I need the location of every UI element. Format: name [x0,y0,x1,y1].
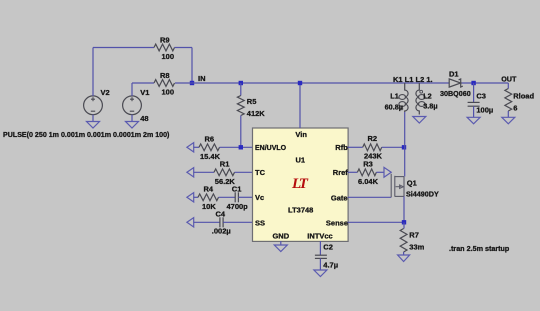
svg-text:V2: V2 [101,88,110,97]
wire [194,196,198,198]
wire [191,48,193,84]
wire [382,146,404,148]
ground flag EN row [187,143,194,152]
wire [473,83,475,102]
svg-text:10K: 10K [202,202,216,211]
phase dot L1 [400,107,403,110]
svg-text:INTVcc: INTVcc [307,231,332,240]
svg-text:4700p: 4700p [227,202,249,211]
svg-text:R7: R7 [409,231,419,240]
svg-text:R4: R4 [204,184,214,193]
svg-text:SS: SS [255,219,265,228]
node OUT junction [471,81,475,85]
svg-text:R3: R3 [363,160,373,169]
svg-text:C1: C1 [232,184,242,193]
capacitor C3 [468,101,480,103]
wire [131,83,133,96]
resistor R4 [198,194,219,201]
wire main rail IN to diode anode [175,82,449,84]
node R5 top junction [239,81,243,85]
ground flag SS row [187,218,194,227]
svg-text:PULSE(0 250 1m 0.001m 0.001m 0: PULSE(0 250 1m 0.001m 0.001m 0.0001m 2m … [3,131,170,139]
svg-text:60.8µ: 60.8µ [385,102,403,111]
inductor L2 [416,83,419,115]
svg-text:.002µ: .002µ [212,227,231,236]
wire Gate pin to gate [348,196,392,198]
svg-text:R8: R8 [160,71,170,80]
svg-text:K1 L1 L2 1.: K1 L1 L2 1. [393,75,433,84]
svg-text:TC: TC [255,168,266,177]
capacitor C1 [234,192,236,202]
wire [473,106,475,117]
ground [131,115,133,122]
wire [175,47,193,49]
ground flag TC row [187,168,194,177]
ground [92,115,94,122]
phase dot L2 [420,90,423,93]
svg-text:30BQ060: 30BQ060 [440,89,471,98]
svg-text:C4: C4 [216,209,226,218]
wire diode cathode to Rload [461,82,509,84]
node sense junction [402,220,406,224]
wire [507,111,509,117]
svg-text:R5: R5 [247,97,257,106]
ground [413,117,426,124]
svg-text:100: 100 [162,52,175,61]
svg-text:Si4490DY: Si4490DY [406,190,439,199]
diode D1 [449,79,461,87]
ground [398,255,410,262]
wire [376,171,384,173]
ground [314,270,327,277]
resistor Rload [507,83,509,89]
wire [132,82,154,84]
svg-text:Rload: Rload [513,91,534,100]
wire Vin stub [299,83,301,128]
svg-text:EN/UVLO: EN/UVLO [255,145,287,152]
node IN [190,81,194,85]
voltage source V1 [123,96,142,115]
node drain junction [402,145,406,149]
svg-text:OUT: OUT [501,74,517,83]
wire [319,241,321,255]
svg-text:Q1: Q1 [407,178,417,187]
wire [93,47,154,49]
ground flag right [384,167,391,177]
svg-text:48: 48 [140,114,148,123]
svg-text:Gate: Gate [331,193,348,202]
wire Sense pin [348,221,405,223]
wire [223,221,252,223]
capacitor C2 [315,254,327,256]
voltage source V2 [84,96,103,115]
IC U1 LT3748 body [253,128,349,241]
svg-text:33m: 33m [409,243,424,252]
capacitor C4 [219,217,221,227]
wire [220,146,253,148]
wire source to sense node [403,196,405,222]
wire [240,83,242,96]
wire [348,146,363,148]
svg-text:GND: GND [272,231,289,240]
ground [274,245,287,252]
wire [280,241,282,245]
resistor R9 [154,44,175,51]
svg-text:15.4K: 15.4K [200,152,221,161]
wire [219,196,236,198]
svg-text:.tran 2.5m startup: .tran 2.5m startup [449,244,510,253]
wire [92,48,94,96]
svg-text:6.04K: 6.04K [358,177,379,186]
svg-text:R2: R2 [368,134,378,143]
svg-text:L1: L1 [390,91,399,100]
svg-text:100: 100 [162,88,175,97]
svg-text:Vc: Vc [255,193,264,202]
svg-text:D1: D1 [449,70,459,79]
svg-text:V1: V1 [140,88,149,97]
inductor L1 [405,83,408,112]
svg-text:R1: R1 [220,159,230,168]
svg-text:Sense: Sense [326,219,348,228]
svg-text:C3: C3 [476,92,486,101]
wire [348,171,358,173]
svg-text:Rref: Rref [333,168,349,177]
wire [235,171,253,173]
svg-text:412K: 412K [247,109,266,118]
wire [194,171,214,173]
wire [194,221,220,223]
wire [240,116,242,148]
ground flag Vc row [187,193,194,202]
svg-text:IN: IN [198,74,206,83]
resistor R2 [363,144,382,151]
wire [403,252,405,255]
resistor R5 [237,96,244,116]
transistor Q1 [390,174,392,198]
resistor R1 [214,169,235,176]
resistor R6 [199,144,220,151]
svg-text:3.8µ: 3.8µ [423,102,437,111]
wire [319,258,321,270]
svg-text:100µ: 100µ [476,106,493,115]
svg-text:R6: R6 [205,134,215,143]
wire [238,196,252,198]
wire L1 bottom to drain [404,112,406,177]
ground [502,117,515,124]
wire [194,146,199,148]
svg-text:U1: U1 [296,156,306,165]
svg-text:6: 6 [513,103,517,112]
resistor R3 [357,169,376,176]
svg-text:Vin: Vin [295,130,307,139]
wire [403,222,405,228]
svg-text:Rfb: Rfb [335,143,348,152]
node EN junction [239,145,243,149]
resistor R7 [400,229,407,253]
svg-text:C2: C2 [323,243,333,252]
svg-text:4.7µ: 4.7µ [323,261,338,270]
svg-text:R9: R9 [160,36,170,45]
svg-text:L2: L2 [423,91,432,100]
resistor R8 [154,80,175,87]
svg-text:LT3748: LT3748 [288,205,313,214]
node Vin junction [298,81,302,85]
ground [467,117,480,124]
